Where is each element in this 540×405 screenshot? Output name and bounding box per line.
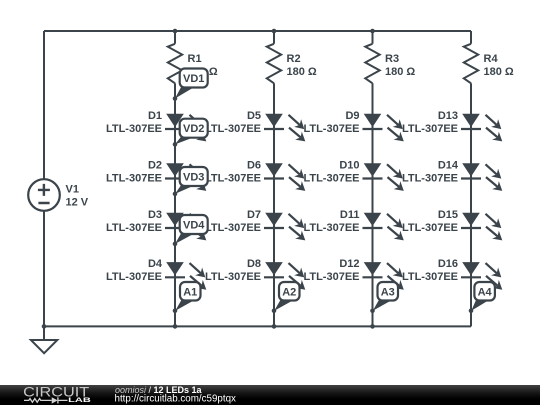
svg-text:http://circuitlab.com/c59ptqx: http://circuitlab.com/c59ptqx bbox=[115, 394, 237, 405]
svg-text:LAB: LAB bbox=[68, 397, 92, 404]
